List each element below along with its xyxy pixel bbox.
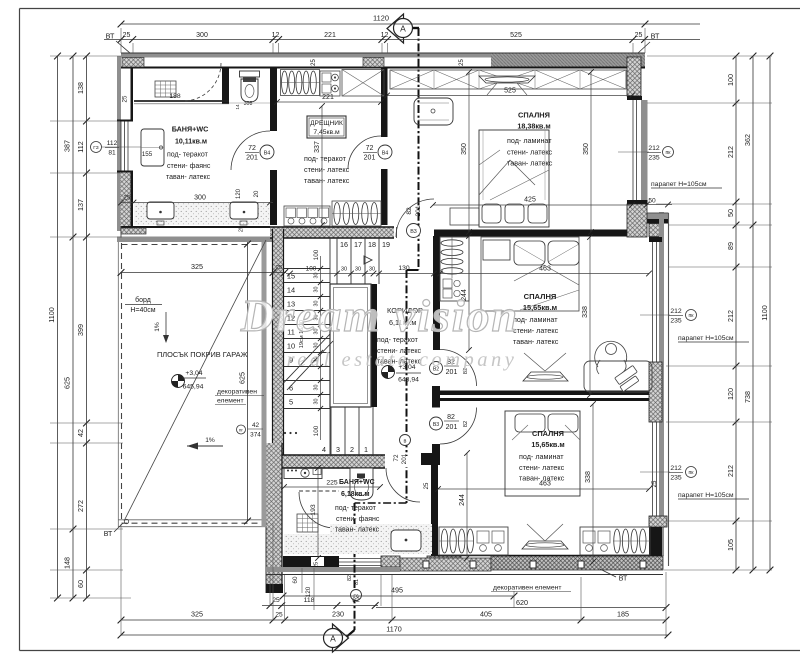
svg-text:625: 625 bbox=[238, 372, 247, 384]
south outer gray band below bath2 bbox=[266, 567, 400, 572]
stub wall between bedroom doors bbox=[432, 386, 440, 408]
svg-text:625: 625 bbox=[63, 377, 72, 389]
svg-text:463: 463 bbox=[539, 266, 551, 273]
svg-text:пк: пк bbox=[666, 150, 672, 156]
corridor east wall / bedroom2 west wall bbox=[433, 236, 440, 350]
svg-text:112: 112 bbox=[107, 140, 118, 147]
svg-text:6,18кв.м: 6,18кв.м bbox=[341, 491, 370, 498]
svg-text:СПАЛНЯ: СПАЛНЯ bbox=[532, 429, 564, 438]
stair direction arrow bbox=[364, 256, 372, 264]
bath1 washbasin counter dotted bbox=[134, 203, 270, 225]
bedroom2 north wall bbox=[434, 230, 632, 237]
svg-text:12: 12 bbox=[272, 32, 280, 39]
svg-text:100: 100 bbox=[306, 266, 317, 273]
bedroom3 dim 463 bbox=[438, 488, 649, 490]
svg-text:620: 620 bbox=[516, 598, 528, 607]
svg-text:ПЛОСЪК ПОКРИВ ГАРАЖ: ПЛОСЪК ПОКРИВ ГАРАЖ bbox=[157, 350, 248, 359]
svg-text:17: 17 bbox=[354, 240, 362, 249]
svg-text:стени- латекс: стени- латекс bbox=[507, 148, 553, 157]
svg-text:ВТ: ВТ bbox=[651, 32, 660, 41]
svg-text:30: 30 bbox=[314, 385, 320, 391]
wc niche stub wall bbox=[222, 68, 229, 104]
svg-text:30: 30 bbox=[314, 399, 320, 405]
window2 east glazing bbox=[652, 242, 654, 362]
svg-text:парапет H=105см: парапет H=105см bbox=[651, 181, 707, 188]
svg-text:225: 225 bbox=[326, 480, 338, 487]
svg-text:350: 350 bbox=[583, 143, 590, 155]
svg-text:таван- латекс: таван- латекс bbox=[166, 174, 211, 181]
bath2 floor dotted texture bbox=[330, 524, 432, 554]
svg-text:СПАЛНЯ: СПАЛНЯ bbox=[518, 111, 550, 120]
svg-text:1%: 1% bbox=[154, 322, 161, 332]
garage roof diagonal bbox=[124, 240, 266, 521]
svg-text:под- ламинат: под- ламинат bbox=[513, 315, 558, 324]
bedroom2 bed block outline bbox=[481, 237, 579, 311]
garage top dim 325 bbox=[121, 272, 286, 274]
dresser top cabinet x-box bbox=[342, 70, 384, 97]
garage slope arrow horizontal bbox=[187, 445, 223, 447]
bath2 west exterior wall hatched bbox=[266, 443, 282, 593]
top extension lines bbox=[120, 28, 122, 53]
svg-text:120: 120 bbox=[236, 188, 242, 199]
bedroom2 dim 338 bbox=[589, 237, 591, 395]
bath2 south wall black bbox=[283, 556, 339, 567]
stair break diagonal lines bbox=[284, 334, 331, 383]
svg-text:272: 272 bbox=[76, 500, 85, 512]
step corner hatch small bbox=[649, 224, 662, 237]
south junction hatch block bbox=[427, 556, 461, 567]
svg-text:В3: В3 bbox=[433, 422, 439, 428]
bath2 east wall / bedroom3 west wall bbox=[431, 453, 438, 556]
vent shaft hatch top-left bbox=[122, 58, 144, 68]
svg-text:81: 81 bbox=[108, 150, 116, 157]
bath2 north-east corner wall L bbox=[421, 453, 440, 465]
svg-text:ВТ: ВТ bbox=[104, 531, 113, 538]
bedroom3 pillows bbox=[515, 414, 545, 432]
garage dashed border top bbox=[122, 244, 265, 246]
wall below bedroom3 door bbox=[432, 444, 440, 453]
dresser east wall lower segment bbox=[381, 169, 388, 225]
bath1 shower partition line bbox=[134, 100, 229, 102]
svg-text:25: 25 bbox=[424, 482, 430, 489]
stair bottom flight step lines 1-4 bbox=[330, 407, 332, 455]
door bath2 entry - opening white bbox=[386, 456, 420, 467]
svg-text:real estate company: real estate company bbox=[287, 349, 518, 371]
decorative band white squares bbox=[423, 561, 429, 568]
top exterior wall - inner face line bbox=[121, 67, 645, 69]
window left bath - caps bbox=[117, 120, 133, 122]
svg-text:399: 399 bbox=[76, 324, 85, 336]
svg-text:под- ламинат: под- ламинат bbox=[519, 452, 564, 461]
svg-text:201: 201 bbox=[415, 205, 422, 216]
svg-text:стени- латекс: стени- латекс bbox=[519, 463, 565, 472]
bedroom3 bed folds bbox=[512, 425, 528, 440]
bedroom1 dim 425 bbox=[433, 204, 632, 206]
top dim chain line bbox=[104, 39, 700, 41]
bedroom3 bottom wardrobe right bbox=[580, 527, 650, 555]
svg-text:100: 100 bbox=[313, 249, 320, 260]
bath2 south window glazing bbox=[339, 558, 381, 560]
pier hatch below window1 bbox=[627, 204, 647, 237]
door dresser - opening bbox=[380, 137, 389, 169]
bedroom1 dim 350 left bbox=[468, 72, 470, 232]
section flag A top bbox=[387, 14, 404, 43]
svg-text:212: 212 bbox=[726, 310, 735, 322]
door bath2 shower dashed leaf bbox=[299, 490, 339, 492]
svg-text:193: 193 bbox=[310, 504, 317, 516]
svg-text:185: 185 bbox=[617, 610, 629, 619]
svg-text:235: 235 bbox=[670, 318, 682, 325]
dresser label box bbox=[307, 116, 346, 138]
svg-text:221: 221 bbox=[324, 32, 336, 39]
east pier hatch between windows bbox=[649, 362, 662, 422]
window left bath - glazing lines bbox=[120, 122, 122, 172]
bath2 west wall foot bbox=[266, 584, 283, 593]
svg-text:42: 42 bbox=[252, 422, 260, 429]
svg-text:БАНЯ+WC: БАНЯ+WC bbox=[339, 479, 375, 486]
bedroom1 door opening top wall white gap bbox=[394, 227, 434, 239]
garage dashed border left bbox=[121, 243, 123, 523]
svg-text:стени- латекс: стени- латекс bbox=[513, 326, 559, 335]
decorative band light part bbox=[400, 558, 491, 571]
bedroom2 keyboard items bbox=[615, 365, 638, 384]
svg-text:под- ламинат: под- ламинат bbox=[507, 136, 552, 145]
svg-text:парапет H=105см: парапет H=105см bbox=[678, 492, 734, 499]
window label 212 235 bedroom2 bbox=[640, 314, 670, 316]
dresser west wall upper segment bbox=[270, 68, 277, 131]
svg-text:30: 30 bbox=[341, 267, 347, 273]
svg-text:СПАЛНЯ: СПАЛНЯ bbox=[524, 292, 557, 301]
stair top flight step lines 16-19 bbox=[336, 238, 338, 284]
bath1 wc toilet bbox=[240, 71, 260, 77]
svg-text:30: 30 bbox=[369, 267, 375, 273]
bedroom2-bedroom3 double wall band upper bbox=[435, 391, 653, 396]
window1 bottom cap bbox=[627, 200, 648, 204]
svg-text:18,38кв.м: 18,38кв.м bbox=[517, 122, 550, 131]
svg-text:138: 138 bbox=[76, 82, 85, 94]
stair left flight step lines bbox=[284, 268, 331, 270]
svg-text:525: 525 bbox=[504, 88, 516, 95]
svg-text:338: 338 bbox=[585, 471, 592, 483]
bath1 washbasin left bbox=[147, 202, 174, 219]
bedroom3 dim 338 bbox=[592, 404, 594, 562]
bedroom1 pouf armchair bbox=[414, 98, 453, 125]
bottom dim 495 bbox=[283, 595, 514, 597]
svg-text:1170: 1170 bbox=[386, 625, 401, 634]
svg-text:25: 25 bbox=[124, 195, 131, 202]
svg-text:ВТ: ВТ bbox=[619, 576, 628, 583]
svg-text:25: 25 bbox=[239, 226, 245, 232]
svg-text:1%: 1% bbox=[205, 437, 215, 444]
bath1 dim 300 lower bbox=[121, 202, 273, 204]
dresser bottom hangers bbox=[332, 201, 381, 226]
svg-text:елемент: елемент bbox=[217, 398, 244, 405]
svg-text:1: 1 bbox=[364, 445, 368, 454]
svg-text:под- теракот: под- теракот bbox=[304, 154, 347, 163]
stair flight edge line bbox=[329, 238, 331, 455]
bedroom3 bottom wardrobe left bbox=[439, 527, 508, 555]
svg-text:72: 72 bbox=[248, 145, 256, 152]
bath1 bottom wall bbox=[121, 226, 270, 228]
svg-text:235: 235 bbox=[670, 475, 682, 482]
svg-text:пк: пк bbox=[689, 470, 695, 476]
dresser bottom shelf boxes bbox=[284, 206, 330, 226]
door dresser arc bbox=[348, 136, 381, 169]
left wall pier hatch below window bbox=[121, 172, 131, 226]
bedroom1 dim 350 right bbox=[590, 72, 592, 232]
bottom dim chain small bbox=[262, 605, 378, 607]
svg-text:244: 244 bbox=[459, 494, 466, 506]
svg-text:362: 362 bbox=[743, 134, 752, 146]
svg-text:82: 82 bbox=[352, 597, 360, 604]
bedroom2 dim 244 wardrobe bbox=[468, 236, 470, 350]
corridor level mark bbox=[382, 366, 395, 379]
svg-text:ВТ: ВТ bbox=[106, 32, 115, 41]
svg-text:25: 25 bbox=[652, 480, 658, 487]
right dim chain middle bbox=[752, 56, 754, 570]
door bedroom2 - opening white bbox=[432, 350, 441, 386]
svg-text:235: 235 bbox=[648, 155, 660, 162]
door bedroom2 arc bbox=[440, 350, 477, 387]
svg-text:648,94: 648,94 bbox=[398, 377, 419, 384]
continuation dots above bath2 bbox=[284, 432, 286, 434]
svg-text:А: А bbox=[400, 24, 406, 34]
bedroom2 pillows bbox=[514, 241, 545, 265]
svg-text:495: 495 bbox=[391, 586, 403, 595]
left dim line chain3 bbox=[86, 56, 88, 598]
svg-text:337: 337 bbox=[314, 141, 321, 153]
svg-text:10,11кв.м: 10,11кв.м bbox=[175, 139, 207, 146]
svg-text:15,65кв.м: 15,65кв.м bbox=[531, 440, 564, 449]
left wall inner face upper bbox=[131, 68, 134, 121]
svg-text:ГЗ: ГЗ bbox=[93, 145, 98, 151]
page border frame bbox=[20, 8, 800, 10]
svg-text:645,94: 645,94 bbox=[183, 384, 204, 391]
svg-text:72: 72 bbox=[393, 454, 400, 462]
svg-text:25: 25 bbox=[123, 32, 131, 39]
svg-text:25: 25 bbox=[311, 59, 317, 66]
left exterior wall - outer gray band bbox=[117, 56, 121, 231]
dresser dim 337 bbox=[321, 106, 323, 225]
sewage circle bottom bbox=[351, 590, 362, 601]
svg-text:борд: борд bbox=[135, 296, 151, 304]
svg-text:ДРЕЩНИК: ДРЕЩНИК bbox=[310, 120, 343, 127]
svg-text:15,65кв.м: 15,65кв.м bbox=[523, 303, 557, 312]
svg-text:12: 12 bbox=[381, 32, 389, 39]
door bedroom3 arc bbox=[440, 408, 477, 445]
bedroom1 wardrobe row x-boxes bbox=[390, 70, 626, 89]
top exterior wall - thick hatched part right bbox=[491, 53, 645, 68]
svg-text:пк: пк bbox=[689, 313, 695, 319]
svg-text:В4: В4 bbox=[264, 151, 271, 157]
garage right gray band bbox=[262, 242, 267, 527]
stair void opening bbox=[330, 284, 371, 407]
svg-text:таван- латекс: таван- латекс bbox=[513, 337, 559, 346]
svg-text:105: 105 bbox=[726, 539, 735, 551]
svg-text:3: 3 bbox=[336, 445, 340, 454]
door bath1 from dresser - opening bbox=[269, 131, 278, 170]
right dim chain inner bbox=[735, 56, 737, 570]
svg-text:2: 2 bbox=[350, 445, 354, 454]
bath1 bottom wall vent hatch bbox=[121, 228, 146, 234]
svg-text:212: 212 bbox=[670, 465, 682, 472]
dresser dim 221 bbox=[277, 101, 381, 103]
svg-text:Dream vision: Dream vision bbox=[240, 290, 519, 341]
top dim line total 1120 bbox=[121, 23, 700, 25]
svg-text:В3: В3 bbox=[410, 229, 417, 235]
dresser top hanger rail bbox=[281, 70, 320, 96]
svg-text:188: 188 bbox=[169, 93, 181, 100]
right extension lines bbox=[647, 55, 772, 57]
bath2 dim 193 bbox=[317, 468, 319, 558]
svg-text:пг: пг bbox=[239, 428, 243, 433]
bedroom2 office person bbox=[606, 344, 617, 355]
svg-text:H=40см: H=40см bbox=[130, 307, 155, 314]
bedroom2 dim 463 bbox=[440, 273, 649, 275]
svg-text:таван- латекс: таван- латекс bbox=[519, 474, 565, 483]
south pier hatch bbox=[381, 556, 400, 567]
svg-text:82: 82 bbox=[406, 207, 413, 215]
svg-text:374: 374 bbox=[250, 432, 261, 439]
bath2 washbasin bbox=[391, 530, 421, 551]
svg-text:82: 82 bbox=[447, 414, 455, 421]
svg-text:30: 30 bbox=[355, 267, 361, 273]
svg-text:БАНЯ+WC: БАНЯ+WC bbox=[172, 125, 209, 134]
bath2 shower grid bbox=[297, 514, 318, 532]
decorative band crosshatch part bbox=[491, 556, 663, 570]
svg-text:25: 25 bbox=[276, 265, 282, 271]
svg-text:декоративен елемент: декоративен елемент bbox=[493, 585, 561, 592]
svg-text:14: 14 bbox=[235, 104, 241, 110]
dresser top shelf boxes bbox=[320, 71, 340, 96]
stair dim line corridor bbox=[286, 273, 434, 275]
stairwell west wall hatched bbox=[273, 229, 284, 455]
east pier hatch below window3 bbox=[649, 516, 667, 527]
svg-text:212: 212 bbox=[670, 308, 682, 315]
svg-text:+3,04: +3,04 bbox=[185, 370, 202, 377]
garage level mark bbox=[172, 375, 185, 388]
bedroom2 bed sheet folds bbox=[514, 265, 544, 281]
svg-text:81: 81 bbox=[354, 579, 360, 585]
svg-text:120: 120 bbox=[305, 586, 312, 597]
corridor top wall hatched band bbox=[270, 227, 394, 238]
svg-text:18: 18 bbox=[368, 240, 376, 249]
svg-text:50: 50 bbox=[726, 209, 735, 217]
svg-text:308: 308 bbox=[244, 101, 253, 107]
bedroom2-bedroom3 double wall band lower bbox=[435, 398, 653, 401]
svg-text:212: 212 bbox=[726, 146, 735, 158]
garage flat roof outline solid lines bbox=[117, 242, 119, 527]
bedroom1 NE corner pier hatch bbox=[627, 57, 641, 96]
bedroom1 south-east step corner pier hatch bbox=[629, 210, 646, 237]
svg-text:120: 120 bbox=[726, 388, 735, 400]
bedroom2 west wardrobe bbox=[440, 237, 469, 301]
east wall outer gray band bbox=[659, 212, 664, 556]
door bedroom1 arc bbox=[396, 199, 434, 237]
svg-text:парапет H=105см: парапет H=105см bbox=[678, 335, 734, 342]
bottom dim chain main bbox=[121, 619, 666, 621]
svg-text:82: 82 bbox=[463, 421, 469, 427]
svg-text:42: 42 bbox=[76, 429, 85, 437]
svg-text:В4: В4 bbox=[382, 151, 389, 157]
svg-text:декоративен: декоративен bbox=[217, 389, 257, 396]
svg-text:1120: 1120 bbox=[373, 14, 389, 23]
svg-text:стени- фаянс: стени- фаянс bbox=[167, 163, 211, 170]
bath2 washbasin vertical bbox=[350, 468, 373, 500]
bedroom1 bed bbox=[479, 130, 549, 227]
bottom dim total 1170 bbox=[121, 634, 668, 636]
garage dashed border bottom bbox=[122, 522, 268, 524]
svg-text:201: 201 bbox=[401, 453, 408, 464]
window label left bath G3 bbox=[91, 142, 102, 153]
bedroom1 tv on wardrobe bbox=[479, 76, 535, 83]
svg-text:таван- латекс: таван- латекс bbox=[335, 527, 380, 534]
svg-text:425: 425 bbox=[524, 197, 536, 204]
bath1 shower grid bbox=[155, 81, 176, 97]
bedroom1 pillows bbox=[482, 204, 501, 223]
svg-text:82: 82 bbox=[347, 575, 353, 581]
svg-text:212: 212 bbox=[726, 465, 735, 477]
wc niche bottom line bbox=[229, 102, 270, 104]
svg-text:300: 300 bbox=[194, 195, 206, 202]
svg-text:стени- латекс: стени- латекс bbox=[304, 165, 350, 174]
parapet line east bbox=[668, 213, 670, 566]
svg-text:под- теракот: под- теракот bbox=[167, 152, 209, 159]
door bath1 arc bbox=[231, 131, 270, 170]
dresser west wall lower segment bbox=[270, 170, 277, 225]
top exterior wall - outer gray band bbox=[121, 53, 645, 58]
window label 212 235 bedroom3 bbox=[640, 471, 670, 473]
svg-text:350: 350 bbox=[461, 143, 468, 155]
bottom extension lines bbox=[120, 524, 122, 636]
svg-text:100: 100 bbox=[726, 74, 735, 86]
vent shaft hatch top-middle bbox=[363, 58, 384, 68]
south outer boundary line bbox=[266, 574, 663, 576]
corridor west wall beside stair void bbox=[371, 284, 377, 407]
bedroom2 tv bbox=[523, 372, 568, 381]
svg-text:стени- фаянс: стени- фаянс bbox=[336, 516, 380, 523]
svg-text:230: 230 bbox=[332, 610, 344, 619]
svg-text:в: в bbox=[404, 439, 407, 445]
svg-text:148: 148 bbox=[63, 557, 72, 569]
step-out wall band gray bbox=[646, 213, 669, 219]
svg-text:50: 50 bbox=[648, 198, 656, 205]
svg-text:405: 405 bbox=[480, 610, 492, 619]
door bedroom3 - opening white bbox=[432, 408, 441, 445]
garage corner circle bbox=[124, 519, 128, 523]
svg-text:100: 100 bbox=[313, 425, 320, 436]
svg-text:19: 19 bbox=[382, 240, 390, 249]
svg-text:1100: 1100 bbox=[47, 307, 56, 322]
svg-text:16: 16 bbox=[340, 240, 348, 249]
section flag A bottom bbox=[333, 624, 349, 652]
svg-text:338: 338 bbox=[582, 306, 589, 318]
bedroom3 bed bbox=[505, 411, 580, 496]
top wall outer edge line bbox=[121, 52, 645, 54]
svg-text:25: 25 bbox=[272, 597, 280, 604]
bedroom1 dim 525 bbox=[387, 95, 632, 97]
svg-text:201: 201 bbox=[246, 155, 258, 162]
riser circle on section line bbox=[400, 435, 411, 446]
svg-text:525: 525 bbox=[510, 32, 522, 39]
svg-text:60: 60 bbox=[292, 576, 299, 584]
svg-text:325: 325 bbox=[191, 610, 203, 619]
svg-text:212: 212 bbox=[648, 145, 660, 152]
window1 east glazing bbox=[632, 100, 634, 202]
svg-text:155: 155 bbox=[142, 151, 153, 158]
bath2 top counter with sink bbox=[284, 468, 322, 479]
svg-text:137: 137 bbox=[76, 199, 85, 211]
